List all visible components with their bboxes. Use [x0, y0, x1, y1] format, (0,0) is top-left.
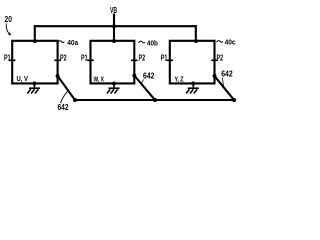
svg-text:40a: 40a — [67, 38, 79, 47]
box 40c — [170, 41, 215, 84]
svg-text:VB: VB — [110, 6, 117, 15]
svg-text:P2: P2 — [139, 53, 146, 62]
pin tick P2 box3 — [212, 59, 217, 61]
node dot diag box2 — [132, 74, 136, 78]
wire drop to box Y,Z — [195, 26, 197, 41]
svg-text:642: 642 — [221, 70, 233, 79]
node dot VB-box2 — [112, 39, 116, 43]
top bus VB — [35, 25, 196, 27]
bottom bus wire — [75, 99, 234, 101]
svg-text:W, X: W, X — [94, 74, 105, 83]
node dot VB-bus — [112, 24, 116, 28]
pin tick P2 box1 — [55, 59, 60, 61]
svg-text:40b: 40b — [147, 38, 158, 47]
node dot bottom-right — [232, 98, 236, 102]
svg-text:P2: P2 — [60, 53, 67, 62]
svg-text:P1: P1 — [4, 53, 11, 62]
leader tilde 40b — [138, 41, 145, 43]
wire drop to box U,V — [34, 26, 36, 41]
leader tilde 40a — [58, 41, 65, 43]
box 40a — [12, 41, 57, 84]
svg-text:U, V: U, V — [17, 74, 29, 83]
node dot diag box3 — [213, 74, 217, 78]
svg-text:642: 642 — [143, 72, 155, 81]
node dot gnd box1 — [33, 82, 37, 86]
node dot gnd box3 — [191, 82, 195, 86]
svg-text:P1: P1 — [161, 53, 168, 62]
box 40b — [91, 41, 135, 84]
node dot bottom-mid — [153, 98, 157, 102]
leader 642 box3 — [222, 77, 223, 86]
ground box3 — [186, 83, 199, 93]
svg-text:40c: 40c — [225, 38, 236, 47]
leader tilde 40c — [216, 41, 223, 43]
pin tick P1 box1 — [10, 59, 15, 61]
wire diagonal 642 box1 — [58, 76, 75, 100]
wire diagonal 642 box2 — [134, 76, 155, 101]
leader 642 box2 — [141, 79, 144, 84]
svg-text:642: 642 — [58, 103, 69, 112]
node dot bus-drop box1 — [33, 39, 37, 43]
node dot gnd box2 — [112, 82, 116, 86]
node dot diag box1 — [56, 74, 60, 78]
pin tick P1 box3 — [167, 59, 172, 61]
svg-text:Y, Z: Y, Z — [175, 74, 184, 83]
ground box1 — [27, 83, 40, 93]
ground box2 — [107, 83, 120, 93]
pin tick P1 box2 — [88, 59, 93, 61]
leader 642 box1 — [61, 91, 69, 104]
wire diagonal 642 box3 — [215, 76, 235, 100]
svg-text:P2: P2 — [217, 53, 224, 62]
node dot bus-drop box3 — [194, 39, 198, 43]
svg-text:20: 20 — [5, 15, 13, 24]
node dot bottom-left — [73, 98, 77, 102]
label 20 with arrow — [5, 15, 13, 35]
svg-text:P1: P1 — [81, 53, 88, 62]
pin tick P2 box2 — [132, 59, 137, 61]
wire VB vertical — [113, 15, 115, 42]
